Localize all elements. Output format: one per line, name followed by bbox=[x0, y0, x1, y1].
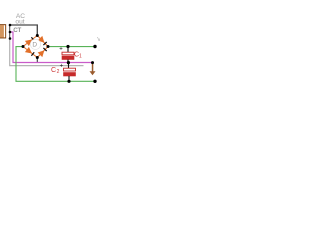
junction: ground arrow on 0V rail bbox=[91, 61, 94, 64]
node: V- output terminal bbox=[93, 80, 96, 83]
svg-text:+: + bbox=[60, 63, 64, 69]
diode D1 top-left (L to T) bbox=[25, 37, 34, 46]
diode D2 top-right (T to R) bbox=[38, 36, 47, 45]
svg-text:V+: V+ bbox=[97, 37, 100, 43]
junction: C1 top to V+ rail bbox=[66, 45, 69, 48]
svg-text:2: 2 bbox=[57, 69, 60, 75]
node: V+ output terminal bbox=[93, 45, 96, 48]
svg-text:C: C bbox=[51, 67, 56, 74]
wire green: V- loop bbox=[16, 47, 95, 82]
wire black: AC top to bridge top bbox=[10, 25, 37, 36]
bridge D edges bbox=[23, 36, 48, 58]
node: bridge right vertex bbox=[47, 45, 50, 48]
node: transformer pin AC bottom bbox=[9, 37, 12, 40]
junction: C1 bottom / C2 top on 0V rail bbox=[67, 61, 70, 64]
svg-text:+: + bbox=[59, 47, 63, 53]
diode D4 bottom-right (B to R) bbox=[38, 48, 47, 57]
node: transformer pin AC top bbox=[9, 24, 12, 27]
node: bridge bottom vertex bbox=[36, 56, 39, 59]
transformer T1 body bbox=[0, 25, 6, 38]
node: bridge left vertex bbox=[22, 45, 25, 48]
svg-text:1: 1 bbox=[79, 53, 82, 59]
wire magenta: CT rail bbox=[10, 32, 93, 63]
wire gray: AC bottom rail bbox=[10, 39, 84, 66]
node: transformer pin CT bbox=[9, 31, 12, 34]
svg-text:CT: CT bbox=[13, 27, 21, 34]
bridge center circle + D label bbox=[30, 39, 40, 49]
wire green: V+ rail bbox=[48, 46, 95, 48]
capacitor C2 bbox=[51, 63, 76, 82]
node: bridge top vertex bbox=[36, 34, 39, 37]
capacitor C1 bbox=[59, 47, 82, 63]
diode D3 bottom-left (L to B) bbox=[25, 47, 34, 56]
svg-text:D: D bbox=[32, 42, 37, 49]
transformer secondary pin line bbox=[9, 25, 11, 39]
wire gray: bridge bottom vertical bbox=[36, 58, 38, 63]
junction: C2 bottom to V- rail bbox=[67, 80, 70, 83]
ground arrow 0V bbox=[90, 63, 96, 75]
